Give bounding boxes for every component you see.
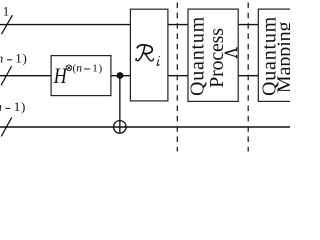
superscript minus sign [84,68,90,71]
minus sign wire3 label [5,108,10,109]
box Quantum Mapping (cut off at right) [258,9,292,101]
bundle slash wire2 [1,66,12,85]
Lambda symbol (box1, rotated) [225,47,237,58]
svg-text:): ) [99,62,103,74]
bundle slash wire3 [1,117,12,136]
dashed separator line 1 [176,3,178,152]
CNOT target oplus on wire3 [114,121,127,134]
wire q0 (top, 1 qubit) [0,24,290,26]
CNOT control-target vertical line [119,76,121,134]
svg-text:n: n [76,62,82,74]
gate box H^(n-1) [51,56,111,96]
svg-text:Process: Process [206,28,228,88]
svg-text:): ) [23,50,27,65]
dashed separator line 2 [247,3,249,152]
otimes symbol (superscript) [66,65,72,71]
wire q2 (bottom, n-1 qubits) [0,126,290,128]
wire q1 (middle, n-1 qubits) [0,75,290,77]
label (n-1) wire2 [0,50,27,65]
svg-text:): ) [21,99,25,114]
subscript i of Ri label [157,56,160,65]
control dot on wire2 [117,72,124,79]
box Quantum Process Lambda [188,9,238,101]
svg-text:1: 1 [3,4,10,19]
svg-text:1: 1 [14,99,20,114]
svg-text:H: H [53,64,68,88]
superscript (n-1) [73,62,103,74]
svg-text:Mapping: Mapping [273,21,290,93]
svg-text:n: n [0,99,2,114]
svg-text:1: 1 [15,50,22,65]
minus sign wire2 label [7,59,12,60]
svg-text:n: n [0,50,3,65]
gate box Ri (spans wires 1-2) [130,9,168,101]
script R of Ri label [136,45,154,61]
label (n-1) wire3 [0,99,25,114]
bundle slash wire1 [2,15,13,34]
svg-text:1: 1 [92,62,98,74]
